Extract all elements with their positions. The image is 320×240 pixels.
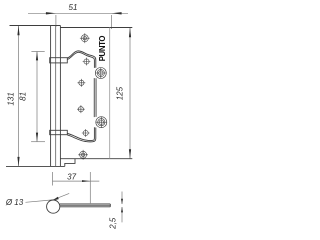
svg-text:37: 37 <box>67 172 76 181</box>
extension line right of 51 <box>111 15 113 29</box>
door leaf right edge upper segment inner <box>93 78 95 117</box>
dimension 125 top arrow <box>129 28 131 38</box>
dimension 125 line <box>129 28 131 159</box>
lower lobe around frame screw <box>96 117 107 128</box>
dimension 51 right arrow <box>112 12 122 14</box>
frame screw hole right lower (B3) <box>96 117 107 128</box>
dimension 131 top arrow <box>17 26 19 36</box>
frame screw hole right upper (B2) <box>95 68 106 79</box>
dimension 81 bottom arrow <box>36 133 38 142</box>
dimension 2.5 lower arrow <box>121 207 123 213</box>
door leaf right edge lower segment inner <box>67 127 94 140</box>
dimension 37 line <box>53 180 100 182</box>
door leaf top wave outer edge <box>67 51 96 68</box>
extension line left of 37 <box>52 172 54 186</box>
leader arrowhead <box>52 197 59 201</box>
leaf end cap bottom view <box>109 204 111 207</box>
door leaf right edge upper segment outer <box>95 78 97 117</box>
dimension 51 line <box>28 12 128 14</box>
dimension 81 line <box>36 52 38 142</box>
barrel circle bottom view <box>47 200 60 213</box>
leader line to barrel circle <box>26 193 70 202</box>
upper lobe around frame screw <box>95 68 106 79</box>
door leaf right edge lower segment outer <box>67 128 96 142</box>
barrel left edge <box>50 26 52 167</box>
dimension 2.5 upper line <box>121 192 123 205</box>
leaf middle line bottom view <box>60 204 111 206</box>
extension tick bottom of 81 <box>31 141 45 143</box>
svg-text:81: 81 <box>19 92 28 101</box>
leaf bottom line bottom view <box>60 206 111 208</box>
dimension 125 bottom arrow <box>129 149 131 159</box>
door screw hole 2 (F2) <box>78 79 86 87</box>
extension tick top of 81 <box>31 50 44 52</box>
barrel right edge <box>59 26 61 167</box>
door leaf top wave inner edge <box>67 52 94 68</box>
dimension 81 top arrow <box>36 51 38 60</box>
leaf top line bottom view <box>60 203 111 205</box>
frame screw hole top (B1) <box>80 33 90 43</box>
dimension 51 left arrow <box>46 12 56 14</box>
frame screw hole bottom (B4) <box>78 150 88 160</box>
door screw hole 4 (F4) <box>82 129 90 137</box>
dimension 2.5 upper arrow <box>121 199 123 205</box>
svg-text:Ø 13: Ø 13 <box>5 198 24 207</box>
frame leaf top edge with 125 extension <box>60 27 132 29</box>
barrel band lower <box>50 130 68 134</box>
extension line right of 37 <box>89 172 91 203</box>
barrel center joint line <box>55 26 57 167</box>
extension line left of 51 (barrel axis) <box>55 15 57 27</box>
dimension 131 bottom arrow <box>17 157 19 167</box>
frame leaf bottom edge with 125 extension <box>60 158 132 160</box>
svg-text:125: 125 <box>116 86 125 100</box>
svg-text:PUNTO: PUNTO <box>98 36 107 62</box>
frame leaf right edge <box>109 28 111 159</box>
door screw hole 1 (F1) <box>83 58 91 66</box>
barrel band upper <box>50 58 68 63</box>
svg-text:131: 131 <box>7 92 16 105</box>
dimension 131 line <box>18 26 20 166</box>
bottom tab edge with 131 extension <box>6 165 65 167</box>
barrel top edge with 131 extension <box>10 25 61 27</box>
svg-text:2,5: 2,5 <box>108 217 117 230</box>
dimension 37 arrow <box>82 180 90 182</box>
door screw hole 3 (F3) <box>77 105 85 113</box>
tab step up <box>65 159 75 167</box>
dimension 2.5 lower line <box>121 207 123 222</box>
svg-text:51: 51 <box>69 3 78 12</box>
